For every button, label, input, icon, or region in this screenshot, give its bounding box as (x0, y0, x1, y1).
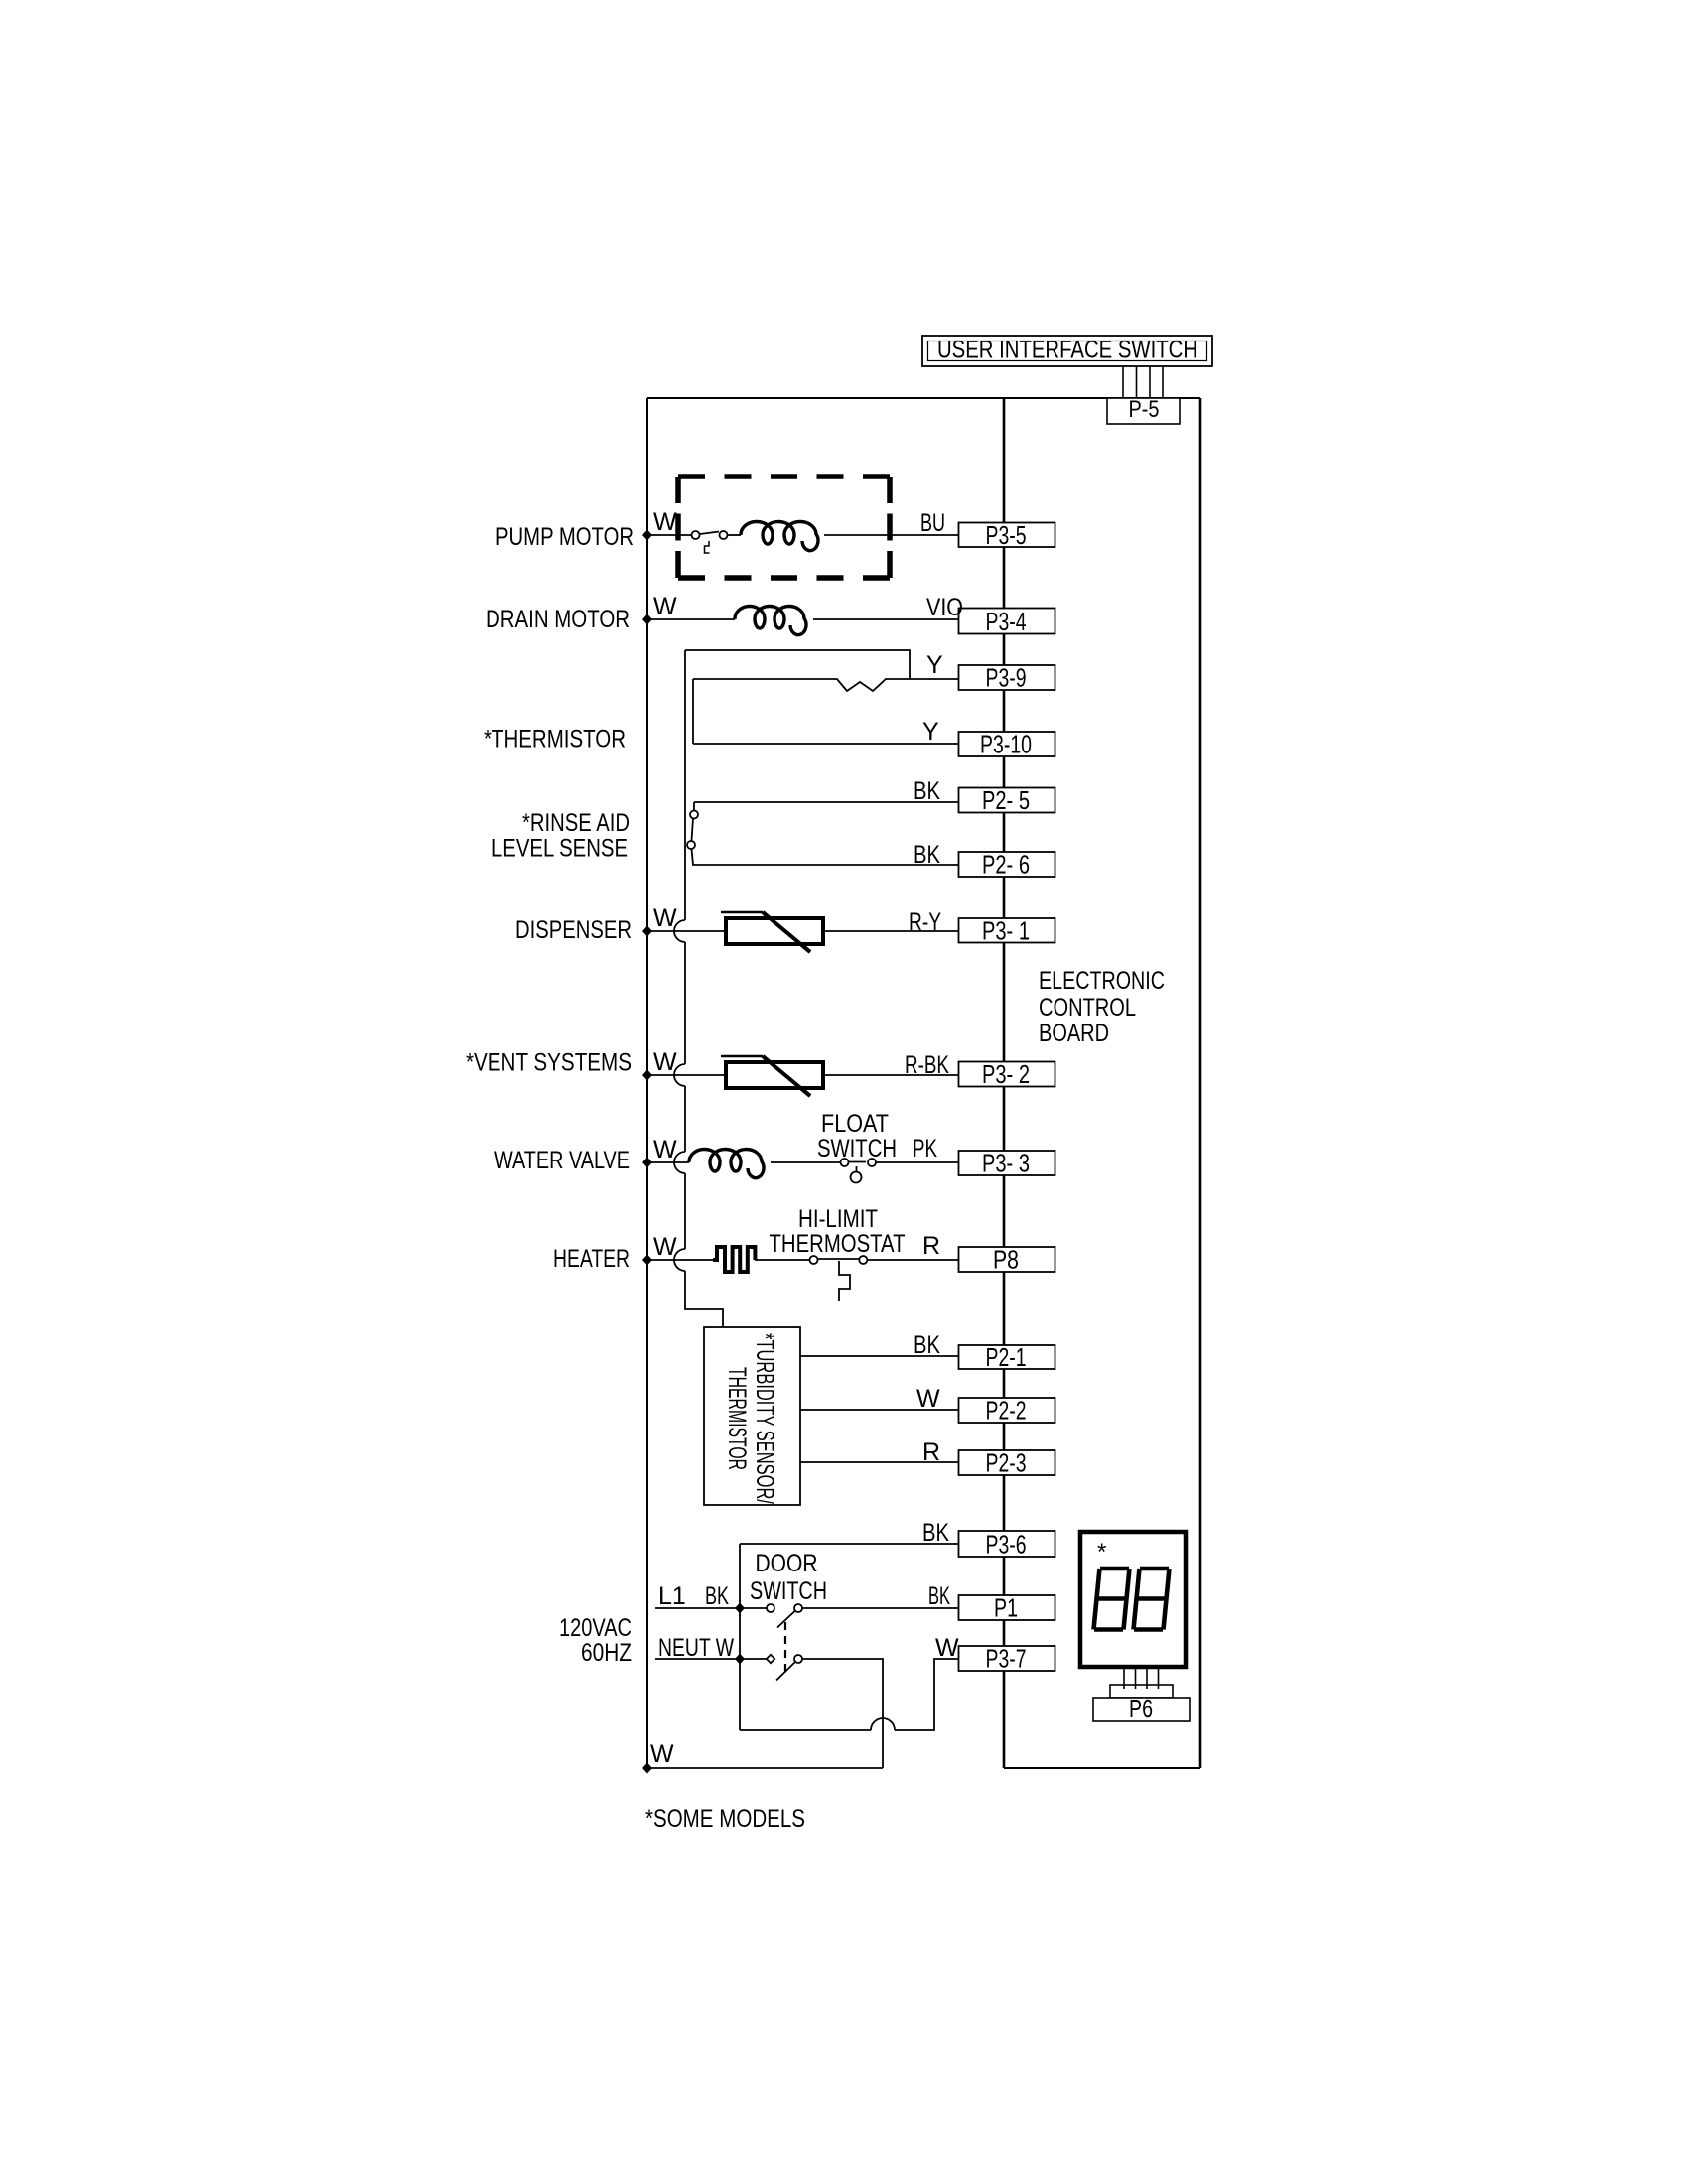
svg-text:W: W (653, 904, 677, 932)
svg-text:60HZ: 60HZ (581, 1639, 632, 1667)
svg-text:PK: PK (913, 1135, 937, 1162)
svg-text:P3-7: P3-7 (986, 1644, 1027, 1674)
svg-text:BK: BK (914, 841, 940, 869)
svg-text:CONTROL: CONTROL (1039, 994, 1136, 1022)
svg-text:NEUT W: NEUT W (658, 1634, 734, 1662)
svg-text:DRAIN MOTOR: DRAIN MOTOR (486, 606, 630, 633)
svg-text:Y: Y (926, 651, 943, 679)
svg-text:P3- 2: P3- 2 (982, 1059, 1030, 1089)
svg-text:P2-2: P2-2 (986, 1396, 1027, 1426)
svg-text:BU: BU (920, 509, 945, 537)
svg-text:*THERMISTOR: *THERMISTOR (484, 726, 626, 753)
svg-text:P1: P1 (994, 1593, 1018, 1623)
svg-text:W: W (653, 1048, 677, 1076)
svg-text:Y: Y (922, 718, 939, 746)
svg-text:R: R (922, 1232, 940, 1260)
svg-text:DOOR: DOOR (756, 1550, 818, 1577)
svg-text:SWITCH: SWITCH (817, 1135, 897, 1162)
svg-text:BK: BK (914, 777, 940, 805)
svg-text:L1: L1 (658, 1582, 686, 1610)
svg-text:DISPENSER: DISPENSER (515, 916, 632, 944)
svg-text:W: W (653, 1136, 677, 1163)
svg-text:P3-9: P3-9 (986, 663, 1027, 693)
svg-text:P3-5: P3-5 (986, 520, 1027, 550)
svg-text:BK: BK (705, 1582, 729, 1610)
svg-text:USER INTERFACE SWITCH: USER INTERFACE SWITCH (937, 337, 1197, 364)
svg-text:WATER VALVE: WATER VALVE (494, 1147, 630, 1174)
svg-text:THERMOSTAT: THERMOSTAT (770, 1230, 906, 1258)
svg-text:THERMISTOR: THERMISTOR (723, 1367, 751, 1470)
svg-text:*: * (1097, 1539, 1106, 1566)
svg-text:PUMP MOTOR: PUMP MOTOR (495, 523, 633, 551)
svg-text:W: W (916, 1385, 940, 1413)
svg-text:R: R (922, 1438, 940, 1466)
svg-text:R-BK: R-BK (905, 1051, 949, 1079)
svg-text:BK: BK (928, 1582, 950, 1610)
svg-text:ELECTRONIC: ELECTRONIC (1039, 967, 1165, 995)
svg-text:P3-10: P3-10 (980, 730, 1032, 759)
svg-text:BK: BK (914, 1331, 940, 1359)
svg-text:BOARD: BOARD (1039, 1020, 1109, 1047)
svg-text:P3- 1: P3- 1 (982, 916, 1030, 946)
svg-text:BK: BK (922, 1519, 949, 1547)
svg-text:R-Y: R-Y (909, 908, 941, 936)
svg-text:P-5: P-5 (1129, 396, 1160, 423)
svg-text:P2-1: P2-1 (986, 1342, 1027, 1372)
svg-text:*SOME MODELS: *SOME MODELS (645, 1805, 805, 1833)
svg-text:W: W (653, 593, 677, 620)
svg-text:*RINSE AID: *RINSE AID (522, 809, 630, 837)
svg-text:P8: P8 (993, 1245, 1019, 1275)
svg-text:120VAC: 120VAC (559, 1614, 632, 1642)
svg-text:P6: P6 (1129, 1694, 1153, 1723)
svg-text:P2-3: P2-3 (986, 1448, 1027, 1478)
svg-text:P2- 5: P2- 5 (982, 785, 1030, 815)
svg-text:P3-6: P3-6 (986, 1530, 1027, 1560)
svg-text:LEVEL SENSE: LEVEL SENSE (492, 835, 628, 863)
svg-text:P3- 3: P3- 3 (982, 1149, 1030, 1178)
svg-text:W: W (653, 508, 677, 536)
svg-text:W: W (653, 1233, 677, 1261)
svg-text:SWITCH: SWITCH (750, 1577, 827, 1605)
svg-text:HEATER: HEATER (553, 1245, 630, 1273)
svg-text:*VENT SYSTEMS: *VENT SYSTEMS (466, 1049, 632, 1077)
svg-text:FLOAT: FLOAT (821, 1110, 889, 1138)
svg-text:HI-LIMIT: HI-LIMIT (798, 1205, 878, 1233)
svg-text:W: W (650, 1740, 674, 1768)
svg-text:VIO: VIO (926, 594, 963, 621)
svg-text:*TURBIDITY SENSOR/: *TURBIDITY SENSOR/ (751, 1333, 778, 1504)
svg-text:P2- 6: P2- 6 (982, 850, 1030, 880)
svg-text:W: W (935, 1634, 959, 1662)
svg-text:P3-4: P3-4 (986, 607, 1027, 636)
